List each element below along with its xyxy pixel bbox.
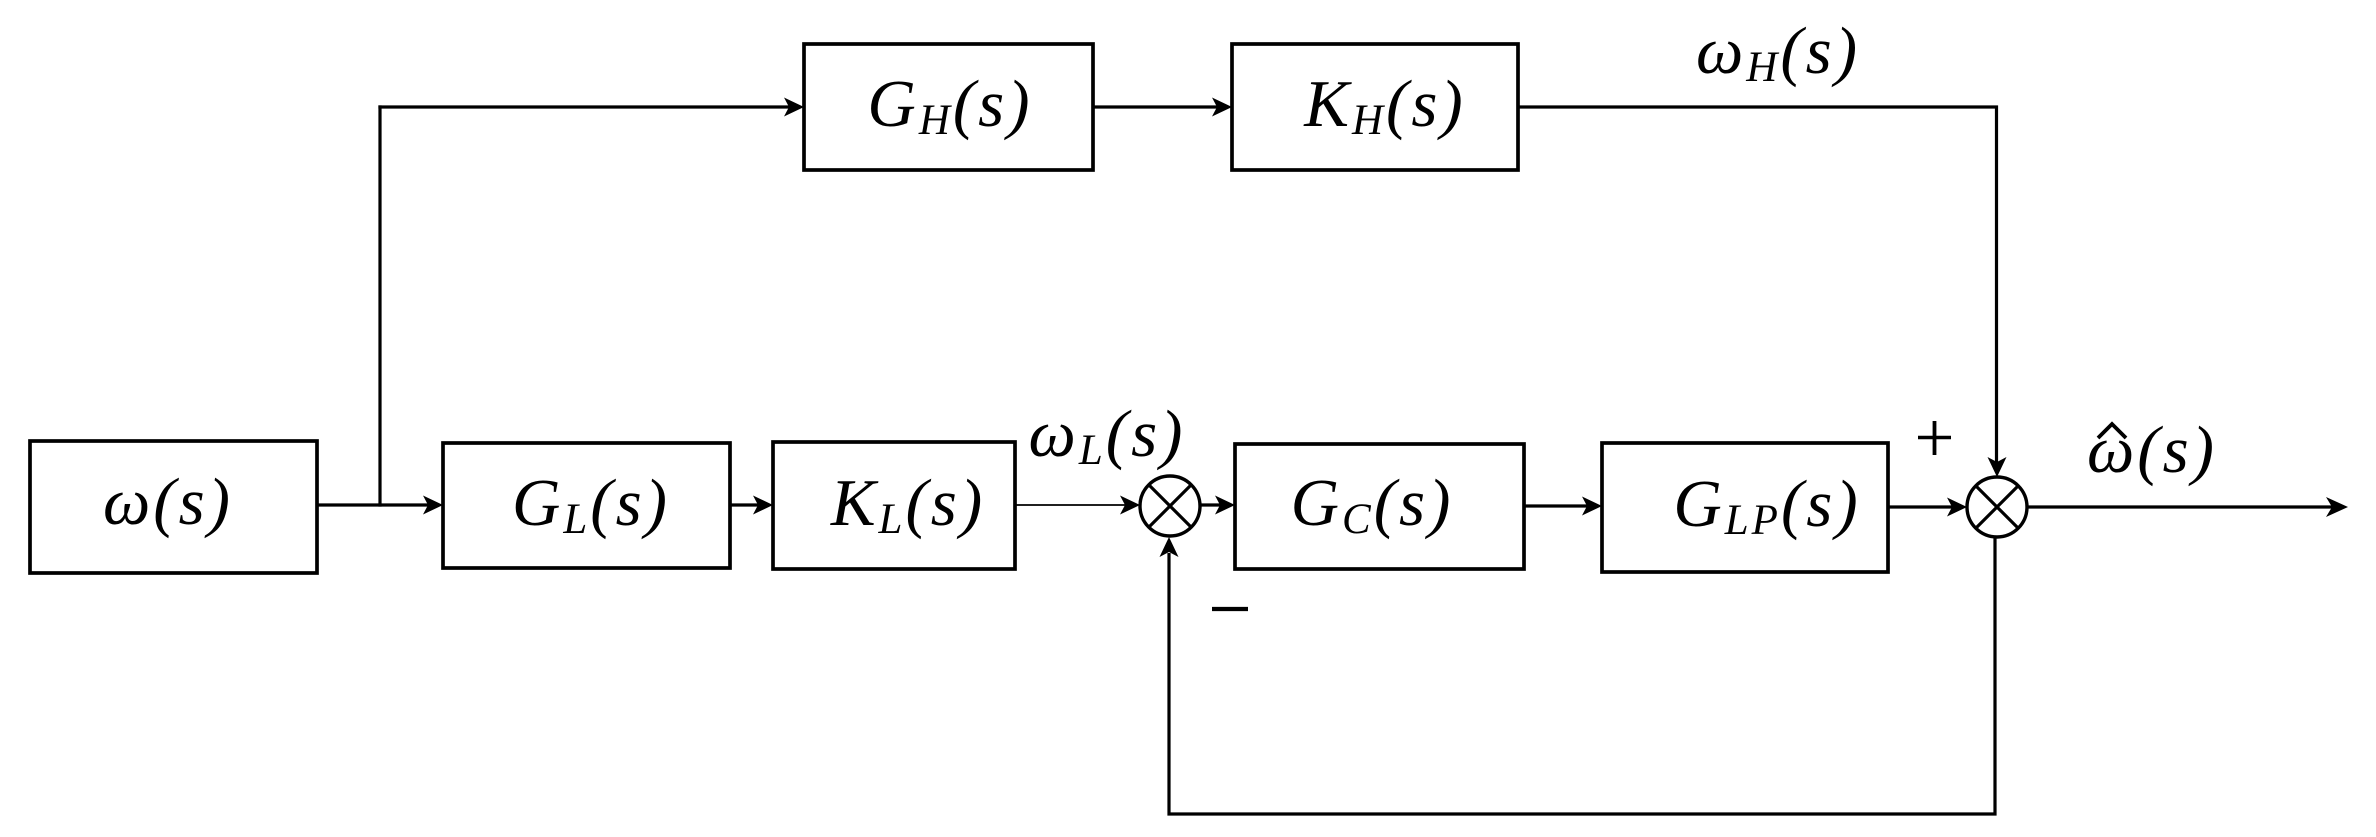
wire S1 to GC bbox=[1200, 503, 1222, 506]
block GC bbox=[1235, 444, 1524, 569]
wire S2 to output arrow bbox=[2027, 505, 2334, 508]
wire GLP to S2 bbox=[1888, 505, 1954, 508]
wire KH right then down to S2 bbox=[1518, 107, 1997, 464]
wire omega(s) output to node A bbox=[317, 503, 380, 506]
wire GC to GLP bbox=[1524, 504, 1589, 507]
wire GL input arrow bbox=[423, 496, 443, 515]
wire feedback S2 down, left, up into S1 bbox=[1169, 537, 1995, 814]
wire branch vertical up bbox=[378, 105, 381, 506]
wire GH to KH bbox=[1093, 105, 1219, 108]
block KH bbox=[1232, 44, 1518, 170]
wire GL to KL bbox=[730, 503, 760, 506]
wire KL to S1 (thin) bbox=[1015, 504, 1127, 506]
block W input omega(s) bbox=[30, 441, 317, 573]
label omega-hat(s) output bbox=[2087, 413, 2217, 487]
summing junction S2 bbox=[1967, 477, 2027, 537]
block KL bbox=[773, 442, 1015, 569]
node A branch junction bbox=[380, 503, 430, 506]
svg-text:ωL(s): ωL(s) bbox=[1029, 397, 1186, 474]
summing junction S1 bbox=[1140, 476, 1200, 536]
svg-text:KL(s): KL(s) bbox=[830, 466, 985, 543]
block GL bbox=[443, 443, 730, 568]
wire top horizontal to GH bbox=[378, 105, 791, 108]
svg-text:ω(s): ω(s) bbox=[2087, 413, 2217, 487]
svg-text:GL(s): GL(s) bbox=[512, 466, 670, 543]
block GLP bbox=[1602, 443, 1888, 572]
label minus sign at S1 bbox=[1212, 607, 1248, 611]
svg-text:ω(s): ω(s) bbox=[103, 465, 233, 539]
block GH bbox=[804, 44, 1093, 170]
label plus sign at S2 bbox=[1918, 421, 1951, 455]
